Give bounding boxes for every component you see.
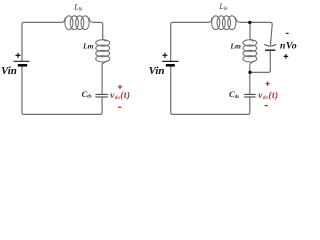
wire: cap top to Lm bottom [101, 64, 103, 94]
wire: bottom-right corner up to cap [100, 98, 102, 115]
wire: bottom-right corner up to cap [248, 98, 250, 115]
annotation + vds(t) - (right, red) [258, 82, 278, 106]
wire: cap top to bottom node [249, 72, 251, 94]
svg-text:Llk: Llk [73, 2, 83, 12]
wire: top node down into Lm [249, 22, 251, 37]
source nVo: polarized-capacitor style symbol [264, 44, 276, 50]
source Vin (right): battery symbol [162, 53, 178, 66]
annotation + vds(t) - (left, red) [110, 85, 130, 108]
svg-text:Cds: Cds [82, 89, 92, 100]
svg-text:vds(t): vds(t) [258, 90, 278, 101]
wire: left vertical lower + bottom wire [22, 66, 100, 114]
svg-text:Llk: Llk [218, 2, 228, 12]
svg-text:Vin: Vin [149, 65, 165, 77]
wire: left vertical upper + top wire to coil [171, 22, 209, 60]
capacitor Cds (right) [244, 94, 255, 97]
wire: coil exit through top node to corner, slant down to nVo symbol [241, 22, 273, 44]
wire: coil exit to top-right corner down to Lm top [93, 22, 102, 37]
svg-text:Vin: Vin [1, 65, 17, 77]
node: top junction dot (right) [248, 21, 251, 24]
svg-text:Lm: Lm [229, 42, 241, 51]
capacitor Cds (left) [95, 94, 107, 97]
svg-text:Lm: Lm [82, 42, 94, 51]
inductor Llk (left): 4 vertical loops [62, 16, 93, 30]
svg-text:vds(t): vds(t) [110, 90, 130, 101]
wire: left vertical lower + bottom wire [171, 67, 248, 115]
inductor Lm (left): 4 flat horizontal loops [96, 37, 110, 64]
node: bottom junction dot (right) [248, 71, 251, 74]
svg-text:Cds: Cds [229, 89, 239, 100]
inductor Llk (right): 4 vertical loops [209, 16, 241, 30]
source Vin (left): battery symbol [13, 53, 29, 65]
svg-text:nVo: nVo [280, 41, 297, 52]
wire: left vertical upper + top wire to coil [22, 22, 62, 60]
wire: nVo symbol down, corner, horizontal to bottom node [250, 51, 270, 73]
inductor Lm (right): 4 flat horizontal loops [243, 37, 257, 72]
label - nVo + [280, 33, 297, 58]
